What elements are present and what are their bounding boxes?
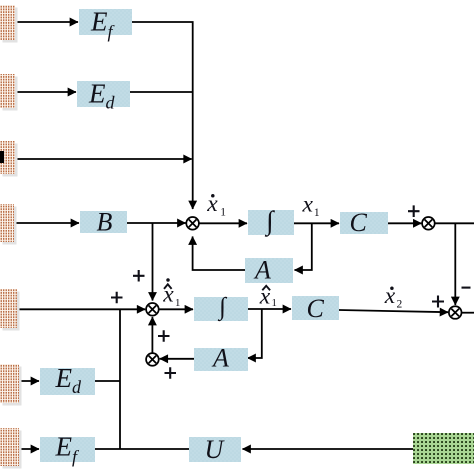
- input block 7: [0, 428, 22, 469]
- label xdot2 observer output: [384, 283, 403, 311]
- label xdot1 plant: [206, 191, 226, 219]
- block Ef top: [79, 7, 132, 42]
- plus sign S4 output to S3: [158, 330, 170, 342]
- input block 5: [0, 289, 20, 331]
- wire Ef bottom to U: [95, 448, 189, 450]
- wire vertical bus down to sum S1: [192, 92, 194, 209]
- wire xhat branch down to observer A: [248, 309, 262, 358]
- block integrator observer: [194, 294, 248, 322]
- block Ef bottom: [40, 432, 95, 467]
- wire B to S1: [127, 222, 186, 224]
- wire x1 branch down to A: [295, 223, 312, 270]
- summing junction S1: [186, 217, 199, 230]
- input block 6: [0, 364, 22, 406]
- wire S2 to right edge: [435, 222, 474, 224]
- wire A feedback to S1: [193, 237, 245, 271]
- svg-text:x: x: [302, 191, 314, 217]
- block integrator plant: [248, 206, 294, 238]
- wire block4 to B: [14, 222, 79, 224]
- plus sign C obs to S5: [432, 296, 444, 308]
- label x1 plant: [302, 191, 320, 219]
- input block 4: [0, 204, 17, 245]
- wire S1 to integrator: [199, 222, 247, 224]
- wire green block to U: [243, 448, 414, 450]
- wire block2 to Ed: [15, 91, 76, 93]
- block Ed top: [77, 79, 130, 113]
- summing junction S2: [422, 217, 435, 230]
- block B: [80, 208, 127, 237]
- plus sign A input S4: [165, 367, 177, 378]
- wire S3 to observer integrator: [159, 308, 193, 310]
- wire observer C to S5: [339, 310, 448, 312]
- wire block1 to Ef: [15, 21, 78, 23]
- summing junction S3: [146, 303, 159, 316]
- wire block6 to Ed bottom: [19, 380, 39, 382]
- wire S5 to right edge: [462, 312, 474, 314]
- svg-text:A: A: [253, 256, 271, 285]
- block A observer: [194, 344, 248, 373]
- wire observer integrator to observer C: [246, 308, 291, 310]
- minus sign S2 branch to S5: [462, 287, 471, 289]
- input block 2: [0, 74, 18, 111]
- wire Ef to vertical bus: [132, 22, 193, 92]
- block U: [189, 435, 241, 464]
- svg-text:1: 1: [272, 297, 277, 309]
- wire branch from B line down to S3: [152, 223, 154, 301]
- wire S4 up to S3: [151, 317, 153, 353]
- block A plant: [245, 256, 293, 285]
- wire observer A to S4: [160, 358, 194, 360]
- label xhatdot1 observer input: [162, 278, 180, 309]
- input block 1: [0, 5, 18, 43]
- wire Ed to vertical bus: [130, 91, 193, 93]
- plus sign C to S2: [408, 205, 420, 217]
- svg-text:2: 2: [397, 299, 403, 311]
- plus sign left input S3: [111, 292, 123, 304]
- plus sign branch B to S3: [133, 270, 145, 282]
- svg-text:1: 1: [220, 207, 226, 219]
- svg-text:A: A: [211, 344, 229, 373]
- summing junction S4: [146, 353, 159, 366]
- input block 3: [0, 141, 18, 177]
- green sensor block: [413, 433, 474, 464]
- block C plant: [340, 208, 388, 237]
- svg-text:x: x: [384, 283, 396, 309]
- svg-text:Ef: Ef: [55, 432, 81, 467]
- svg-text:C: C: [307, 294, 325, 323]
- wire integrator to C: [294, 222, 339, 224]
- svg-text:C: C: [350, 208, 368, 237]
- summing junction S5: [449, 306, 462, 319]
- svg-text:∫: ∫: [217, 294, 227, 322]
- block Ed bottom: [40, 363, 95, 397]
- svg-text:∫: ∫: [264, 206, 275, 238]
- svg-text:1: 1: [175, 297, 180, 309]
- svg-text:U: U: [205, 435, 226, 464]
- wire Ed bottom to vertical feedback bus: [95, 380, 120, 382]
- svg-text:1: 1: [314, 207, 320, 219]
- svg-text:B: B: [97, 208, 113, 237]
- wire S2 branch down to S5: [454, 223, 456, 305]
- wire vertical feedback bus up to S3 line: [119, 309, 121, 449]
- wire block3 to vertical bus: [15, 158, 192, 160]
- block C observer: [292, 294, 339, 323]
- wire block7 to Ef bottom: [19, 448, 39, 450]
- label xhat1 observer state: [259, 283, 277, 309]
- wire block5 to S3: [18, 308, 145, 310]
- wire C to S2: [388, 222, 421, 224]
